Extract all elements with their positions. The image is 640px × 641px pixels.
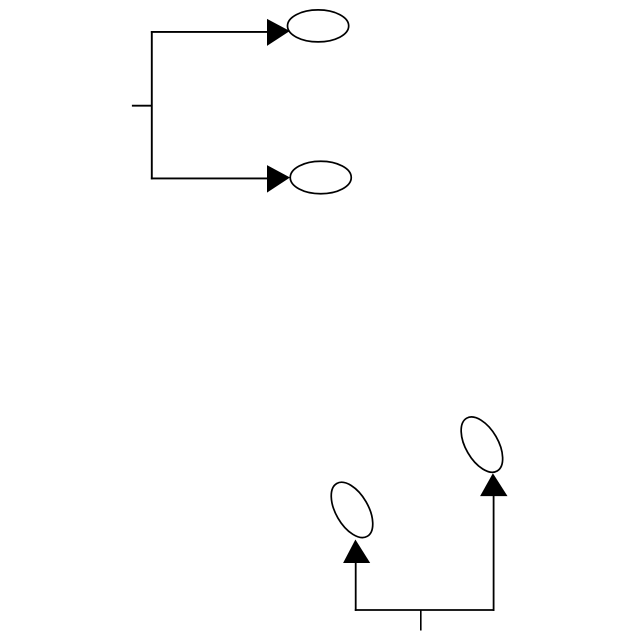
arrowhead: up arrow to left tilted ellipse — [343, 540, 370, 564]
arrowhead: lower arrow — [267, 165, 290, 193]
node: second ellipse — [290, 161, 351, 194]
arrowhead: up arrow to right tilted ellipse — [480, 473, 507, 496]
wire: left riser — [355, 562, 357, 611]
wire: centre stub below bus — [420, 610, 422, 631]
wire: vertical trunk — [151, 31, 153, 179]
node: right tilted ellipse — [453, 410, 512, 479]
node: top ellipse — [288, 10, 349, 42]
wire: top branch horizontal — [151, 31, 268, 33]
arrowhead: top arrow — [267, 19, 290, 46]
wire: right riser — [493, 495, 495, 611]
wire: left stub into branch point — [132, 105, 152, 107]
node: left tilted ellipse — [323, 475, 382, 544]
wire: bottom bus horizontal — [355, 609, 495, 611]
wire: lower branch horizontal — [151, 177, 268, 179]
